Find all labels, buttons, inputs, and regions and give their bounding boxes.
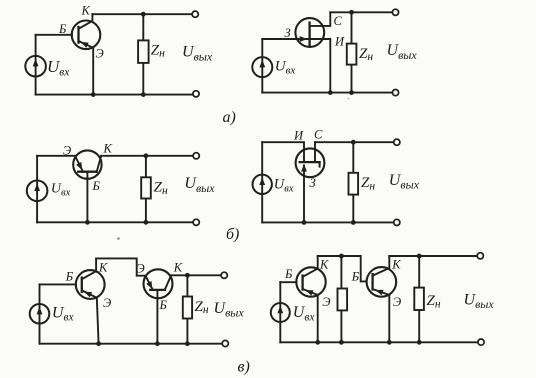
- junction v-r6: [417, 340, 422, 345]
- svg-text:С: С: [334, 14, 343, 28]
- terminal (b-right) bottom: [394, 219, 400, 225]
- wire: gate down with arrow: [301, 164, 307, 222]
- svg-text:Uвх: Uвх: [275, 58, 296, 76]
- source U_vx 5: [30, 304, 50, 324]
- wire: emitter T2 down v-right: [388, 295, 390, 342]
- junction a-r2: [328, 90, 333, 95]
- wire: top rail a: [92, 13, 194, 15]
- resistor R (v-right): [338, 256, 348, 342]
- source U_vx 1: [25, 56, 46, 77]
- wire: collector rail b: [101, 155, 196, 157]
- transistor VT3 (b): [73, 150, 101, 178]
- load Z_n (b-right): [349, 142, 359, 222]
- wire: left branch v-right: [279, 282, 281, 342]
- svg-text:а): а): [223, 109, 236, 126]
- junction v-r2: [417, 254, 422, 259]
- svg-text:К: К: [391, 258, 401, 272]
- svg-text:Uвх: Uвх: [51, 182, 71, 199]
- terminal (v) bottom: [222, 340, 228, 346]
- junction v4: [185, 341, 190, 346]
- junction b3: [144, 220, 149, 225]
- svg-text:З: З: [310, 176, 316, 190]
- svg-text:Uвых: Uвых: [387, 42, 418, 62]
- wire: top rail v-right: [389, 255, 480, 257]
- svg-text:Uвх: Uвх: [47, 57, 70, 78]
- wire: bottom rail a: [36, 94, 195, 96]
- junction b-r3: [351, 220, 356, 225]
- svg-text:Uвх: Uвх: [293, 304, 316, 323]
- svg-text:Э: Э: [322, 295, 330, 309]
- junction v2: [96, 341, 101, 346]
- transistor VT7 (v-right): [296, 256, 325, 297]
- junction v-r3: [315, 340, 320, 345]
- transistor VT5 (v): [76, 258, 105, 299]
- load Z_n (v-right): [414, 256, 424, 342]
- wire: output rail v: [171, 274, 224, 276]
- svg-text:К: К: [103, 142, 113, 156]
- svg-text:Э: Э: [63, 143, 71, 157]
- svg-text:Uвых: Uвых: [182, 44, 213, 64]
- terminal (b) top: [193, 153, 199, 159]
- wire: base lead T1 v: [40, 283, 77, 285]
- svg-text:И: И: [334, 35, 345, 49]
- wire: emitter T1 down v-right: [317, 295, 319, 342]
- junction v-r4: [339, 340, 344, 345]
- wire: bottom rail b-right: [262, 221, 396, 223]
- junction a-r1: [349, 10, 354, 15]
- svg-text:Э: Э: [393, 295, 401, 309]
- junction v1: [185, 273, 190, 278]
- wire: emitter T1 down: [97, 298, 99, 344]
- svg-text:Б: Б: [58, 22, 67, 36]
- wire: collector T1 to emitter T2 step: [96, 258, 146, 275]
- transistor VT1 (a): [72, 14, 101, 49]
- wire: collector T1 node to base T2: [318, 256, 367, 281]
- svg-text:Э: Э: [103, 296, 111, 310]
- FET VT2 (a): [295, 12, 330, 92]
- wire: base down b: [86, 172, 88, 223]
- terminal (a-right) bottom: [392, 90, 398, 96]
- source U_vx 3: [27, 181, 48, 202]
- svg-text:Uвх: Uвх: [52, 304, 75, 323]
- transistor VT8 (v-right): [367, 256, 397, 297]
- svg-text:Б: Б: [284, 267, 293, 281]
- junction v-r1: [339, 254, 344, 259]
- load Z_n (a): [138, 14, 149, 94]
- svg-text:Б: Б: [65, 270, 74, 284]
- terminal (v-right) top: [477, 253, 483, 259]
- junction a2: [91, 92, 96, 97]
- wire: left branch b-right: [261, 142, 263, 222]
- svg-text:Uвых: Uвых: [389, 172, 420, 192]
- svg-text:К: К: [98, 261, 108, 275]
- svg-text:в): в): [238, 358, 250, 375]
- junction b2: [85, 220, 90, 225]
- wire: top rail b-right: [315, 141, 397, 143]
- svg-text:Э: Э: [96, 46, 104, 60]
- svg-text:К: К: [173, 261, 183, 275]
- svg-text:Zн: Zн: [361, 175, 375, 192]
- svg-text:Uвых: Uвых: [214, 300, 245, 320]
- terminal (v) top: [221, 272, 227, 278]
- svg-text:К: К: [319, 258, 329, 272]
- terminal (a) top: [192, 11, 198, 17]
- load Z_n (a-right): [347, 12, 357, 92]
- wire: bottom rail a-right: [262, 92, 395, 94]
- svg-text:Zн: Zн: [359, 46, 373, 63]
- source U_vx 2: [252, 57, 272, 77]
- wire: base T2 down: [156, 290, 158, 344]
- junction b-r1: [351, 140, 356, 145]
- terminal (a-right) top: [392, 9, 398, 15]
- terminal (a) bottom: [193, 91, 199, 97]
- junction a1: [141, 12, 146, 17]
- scan specks: [117, 98, 349, 240]
- load Z_n (b): [141, 156, 151, 223]
- load Z_n (v): [183, 275, 192, 343]
- svg-text:Б: Б: [159, 298, 168, 312]
- junction b1: [144, 153, 149, 158]
- svg-text:Zн: Zн: [195, 299, 209, 316]
- svg-text:Б: Б: [351, 270, 360, 284]
- wire: left branch v: [39, 284, 41, 343]
- wire: base lead T1 v-right: [280, 281, 296, 283]
- svg-text:Uвх: Uвх: [274, 176, 294, 194]
- svg-text:Uвых: Uвых: [464, 291, 495, 311]
- wire: left branch b: [36, 156, 38, 223]
- junction a-r3: [349, 90, 354, 95]
- wire: left branch: [261, 39, 263, 93]
- wire: bottom rail b: [37, 221, 196, 223]
- wire: source lead (I): [262, 142, 304, 162]
- svg-text:С: С: [314, 127, 323, 141]
- junction b-r2: [302, 220, 307, 225]
- svg-text:б): б): [226, 226, 239, 243]
- wire: bottom rail v-right: [280, 341, 480, 343]
- junction a3: [141, 92, 146, 97]
- svg-text:Zн: Zн: [151, 42, 165, 59]
- terminal (v-right) bottom: [478, 339, 484, 345]
- svg-text:Б: Б: [92, 179, 101, 193]
- FET VT4 (b-right): [296, 142, 325, 177]
- wire: left branch input: [35, 35, 37, 95]
- svg-text:К: К: [81, 4, 91, 18]
- terminal (b) bottom: [193, 219, 199, 225]
- transistor VT6 (v): [144, 269, 173, 298]
- svg-text:Uвых: Uвых: [184, 175, 215, 195]
- wire: bottom rail v: [40, 343, 225, 345]
- svg-text:Zн: Zн: [427, 293, 441, 310]
- wire: gate lead with arrow: [262, 36, 308, 42]
- svg-text:Э: Э: [137, 262, 145, 276]
- source U_vx 4: [253, 175, 272, 194]
- wire: base lead: [36, 34, 72, 36]
- source U_vx 6: [271, 303, 290, 322]
- wire: emitter lead b: [37, 155, 75, 157]
- terminal (b-right) top: [394, 139, 400, 145]
- svg-text:И: И: [293, 129, 304, 143]
- junction v-r5: [387, 340, 392, 345]
- svg-text:Zн: Zн: [154, 180, 168, 197]
- svg-text:З: З: [285, 26, 291, 40]
- junction v3: [155, 341, 160, 346]
- wire: top rail a-right: [330, 11, 395, 13]
- wire: emitter down: [92, 48, 94, 95]
